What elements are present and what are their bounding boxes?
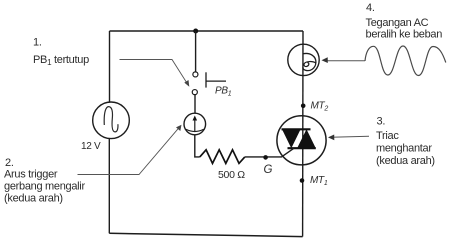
- AC source V1: [93, 102, 130, 139]
- svg-text:(kedua arah): (kedua arah): [4, 192, 63, 204]
- node top junction: [193, 29, 198, 34]
- wire right vertical: [302, 31, 304, 237]
- wire resistor to gate: [245, 148, 294, 157]
- svg-text:Tegangan AC: Tegangan AC: [366, 17, 429, 29]
- pushbutton PB1: [192, 72, 226, 95]
- leader arrow 2: [78, 125, 182, 175]
- waveform sine output: [365, 46, 446, 76]
- wire switch to meter: [194, 95, 196, 114]
- svg-text:PB1: PB1: [215, 86, 232, 98]
- wire left vertical lower: [108, 139, 110, 234]
- svg-text:500 Ω: 500 Ω: [218, 169, 245, 181]
- node MT1: [300, 178, 305, 183]
- wire left vertical upper: [109, 31, 111, 103]
- wire bottom rail: [109, 233, 302, 236]
- svg-text:G: G: [264, 164, 273, 176]
- svg-text:Triac: Triac: [376, 130, 399, 142]
- svg-text:beralih ke beban: beralih ke beban: [366, 29, 443, 41]
- wire junction to switch: [195, 31, 197, 72]
- leader arrow 3: [328, 135, 369, 141]
- node G: [263, 155, 268, 160]
- wire meter to resistor: [195, 135, 200, 157]
- svg-text:Arus trigger: Arus trigger: [4, 169, 58, 181]
- svg-text:12 V: 12 V: [81, 141, 101, 152]
- svg-text:3.: 3.: [377, 116, 386, 128]
- leader arrow 4: [322, 57, 366, 63]
- svg-text:MT1: MT1: [310, 175, 328, 187]
- svg-text:2.: 2.: [5, 157, 14, 169]
- lamp load L1: [288, 44, 319, 75]
- leader arrow 1: [120, 60, 190, 87]
- node MT2: [301, 104, 306, 109]
- svg-text:1.: 1.: [33, 37, 42, 49]
- wire top rail: [110, 30, 304, 32]
- svg-text:4.: 4.: [366, 2, 375, 14]
- resistor R1 500 ohm: [200, 150, 245, 164]
- svg-text:gerbang mengalir: gerbang mengalir: [4, 181, 85, 193]
- triac Q1: [277, 116, 326, 165]
- meter M1: [184, 113, 206, 135]
- svg-text:(kedua arah): (kedua arah): [376, 155, 435, 167]
- svg-text:PB1 tertutup: PB1 tertutup: [33, 54, 89, 67]
- svg-text:menghantar: menghantar: [376, 143, 432, 155]
- svg-text:MT2: MT2: [311, 101, 329, 113]
